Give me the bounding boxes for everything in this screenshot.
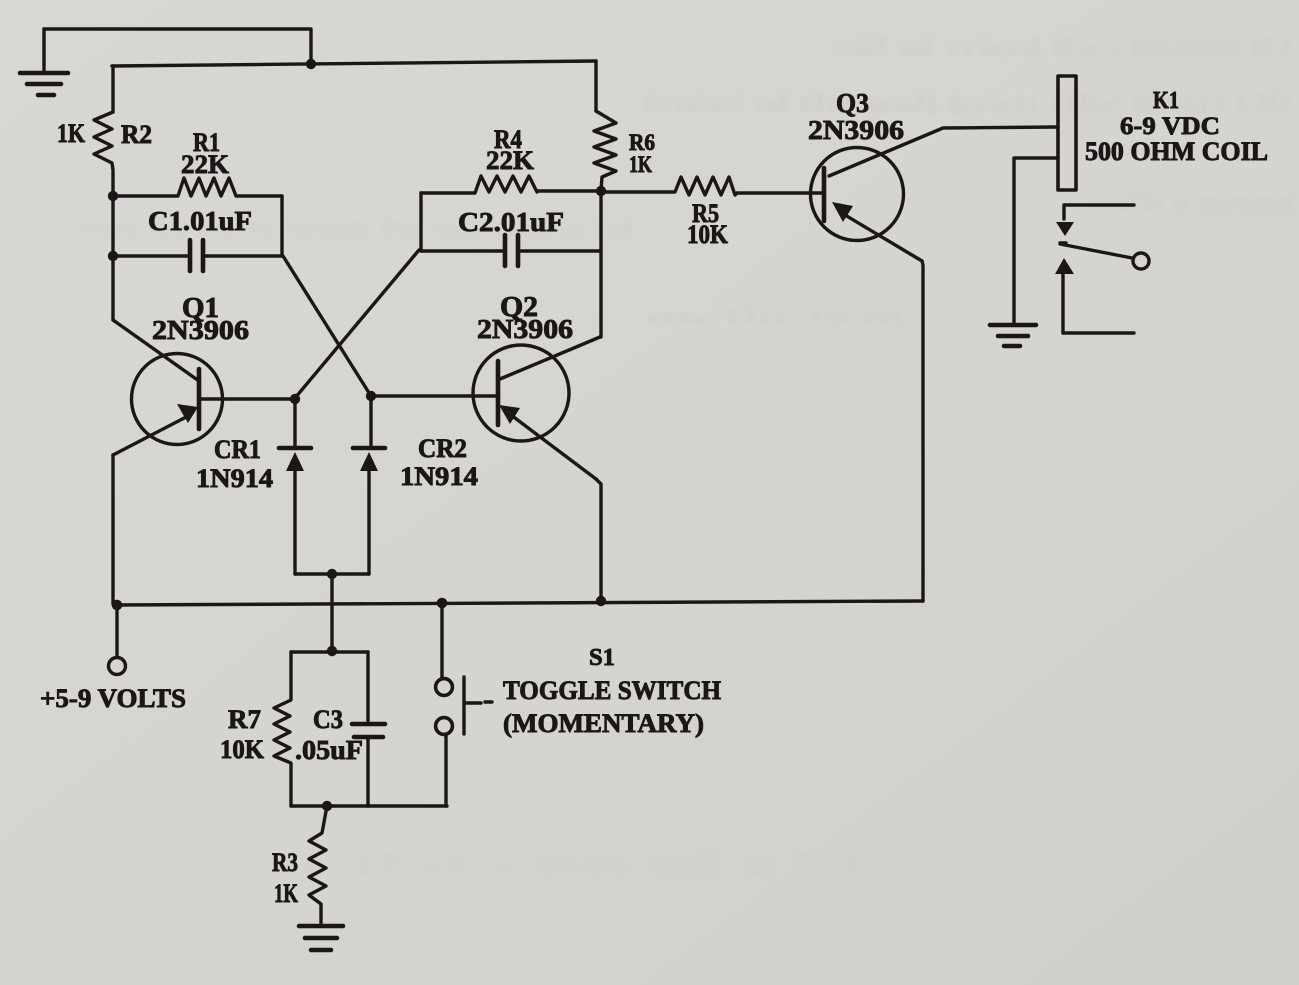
node C1 left bbox=[108, 251, 118, 261]
wire Q2 collector diagonal bbox=[500, 337, 600, 379]
resistor R5 bbox=[601, 177, 824, 249]
wire Q1 base lead bbox=[199, 397, 295, 400]
resistor R4 bbox=[421, 125, 601, 193]
svg-text:TOGGLE SWITCH: TOGGLE SWITCH bbox=[503, 676, 721, 705]
wire Q2 emitter to rail bbox=[596, 479, 601, 601]
node rail S1 bbox=[437, 598, 448, 609]
ground relay bbox=[990, 325, 1036, 346]
svg-text:2N3906: 2N3906 bbox=[808, 115, 904, 145]
wire Q3 emitter down to rail bbox=[922, 261, 923, 601]
wire left rail collector segment bbox=[111, 196, 114, 320]
wire top rail bbox=[112, 61, 596, 66]
capacitor C1 bbox=[113, 206, 282, 271]
node R7 C3 box top bbox=[327, 646, 337, 656]
svg-text:.05uF: .05uF bbox=[295, 735, 363, 765]
svg-text:R3: R3 bbox=[272, 848, 298, 877]
transistor Q3 bbox=[808, 88, 922, 261]
svg-text:CR1: CR1 bbox=[214, 435, 261, 464]
svg-text:1K: 1K bbox=[629, 152, 652, 177]
relay K1 coil bbox=[1058, 76, 1268, 190]
diode CR1 bbox=[196, 399, 311, 574]
svg-text:CR2: CR2 bbox=[418, 434, 467, 463]
svg-text:1K: 1K bbox=[274, 879, 299, 908]
svg-text:R2: R2 bbox=[121, 120, 152, 149]
resistor R6 bbox=[594, 111, 655, 191]
diode CR2 bbox=[353, 396, 478, 574]
transistor Q2 bbox=[473, 292, 596, 479]
wire bottom supply rail bbox=[114, 601, 923, 605]
svg-text:K1: K1 bbox=[1153, 88, 1179, 114]
svg-text:nw thr iwm: nw thr iwm bbox=[645, 302, 906, 331]
wire R1 right corner down bbox=[280, 196, 283, 256]
transistor Q1 bbox=[113, 293, 249, 455]
wire R4 left corner down bbox=[419, 193, 422, 251]
resistor R7 bbox=[220, 652, 291, 806]
node Q2 base bbox=[366, 391, 376, 401]
wire rail to R6 bbox=[594, 61, 597, 111]
capacitor C2 bbox=[421, 207, 600, 266]
wire R7 C3 box top bbox=[291, 650, 368, 653]
svg-text:2N3906: 2N3906 bbox=[152, 315, 249, 345]
node junction top rail bbox=[306, 59, 316, 69]
svg-text:22K: 22K bbox=[181, 150, 230, 179]
svg-text:1K: 1K bbox=[57, 119, 86, 148]
wire Q2 base lead bbox=[371, 394, 498, 397]
svg-text:6-9 VDC: 6-9 VDC bbox=[1120, 113, 1220, 140]
svg-text:10K: 10K bbox=[687, 220, 729, 249]
wire cross-couple A (C1 box to Q2 base) bbox=[283, 256, 371, 396]
wire Q1 collector diagonal bbox=[113, 320, 199, 381]
wire relay coil to ground bbox=[1014, 158, 1058, 322]
wire cross-couple B (C2 box to Q1 base) bbox=[295, 250, 419, 398]
switch S1 bbox=[436, 603, 721, 806]
svg-text:t tl n i nn nl t i l: t tl n i nn nl t i l bbox=[300, 852, 860, 877]
terminal +5-9 volts bbox=[40, 605, 186, 713]
svg-text:C3: C3 bbox=[313, 705, 343, 734]
relay contact pole bbox=[1060, 243, 1149, 269]
node R4 R6 R5 junction bbox=[596, 186, 606, 196]
svg-text:500 OHM COIL: 500 OHM COIL bbox=[1085, 137, 1268, 166]
relay contact bottom bbox=[1055, 258, 1134, 333]
wire Q3 collector to relay bbox=[829, 127, 1058, 176]
ground top-left bbox=[20, 29, 68, 95]
resistor R1 bbox=[113, 128, 282, 196]
relay contact top bbox=[1056, 205, 1134, 236]
svg-text:R7: R7 bbox=[228, 705, 261, 734]
svg-text:(MOMENTARY): (MOMENTARY) bbox=[503, 709, 704, 738]
wire diode bottoms connector bbox=[295, 572, 369, 575]
resistor R3 bbox=[272, 806, 327, 924]
node rail left end bbox=[112, 600, 123, 611]
wire rail to R2 bbox=[111, 66, 114, 112]
resistor R2 bbox=[57, 112, 152, 196]
svg-text:10K: 10K bbox=[220, 735, 265, 764]
svg-text:1N914: 1N914 bbox=[196, 464, 273, 493]
svg-text:+5-9 VOLTS: +5-9 VOLTS bbox=[40, 684, 186, 713]
node rail Q2 emitter bbox=[596, 596, 606, 606]
svg-text:S1: S1 bbox=[589, 645, 615, 671]
svg-text:22K: 22K bbox=[486, 146, 535, 175]
svg-text:C1.01uF: C1.01uF bbox=[148, 206, 252, 236]
ground R3 bbox=[299, 926, 343, 950]
wire right rail collector segment bbox=[599, 191, 602, 337]
node Q1 collector bbox=[108, 191, 118, 201]
wire ground to top rail bbox=[44, 29, 311, 64]
svg-text:1N914: 1N914 bbox=[400, 462, 478, 491]
svg-text:2N3906: 2N3906 bbox=[477, 314, 573, 344]
capacitor C3 bbox=[295, 652, 385, 806]
svg-text:niif ui vricnl ilw clininnl lO: niif ui vricnl ilw clininnl lO bbox=[832, 30, 1292, 63]
node Q1 base bbox=[290, 394, 300, 404]
wire R7 C3 box bottom bbox=[291, 804, 447, 807]
svg-text:with a mnnn: with a mnnn bbox=[1090, 185, 1295, 218]
wire diode node down to R7 C3 box bbox=[330, 574, 333, 651]
node diode connector bbox=[327, 569, 337, 579]
svg-text:C2.01uF: C2.01uF bbox=[458, 207, 564, 237]
svg-text:Q3: Q3 bbox=[836, 88, 869, 118]
wire left rail emitter segment bbox=[111, 455, 114, 604]
node box bottom bbox=[322, 801, 332, 811]
